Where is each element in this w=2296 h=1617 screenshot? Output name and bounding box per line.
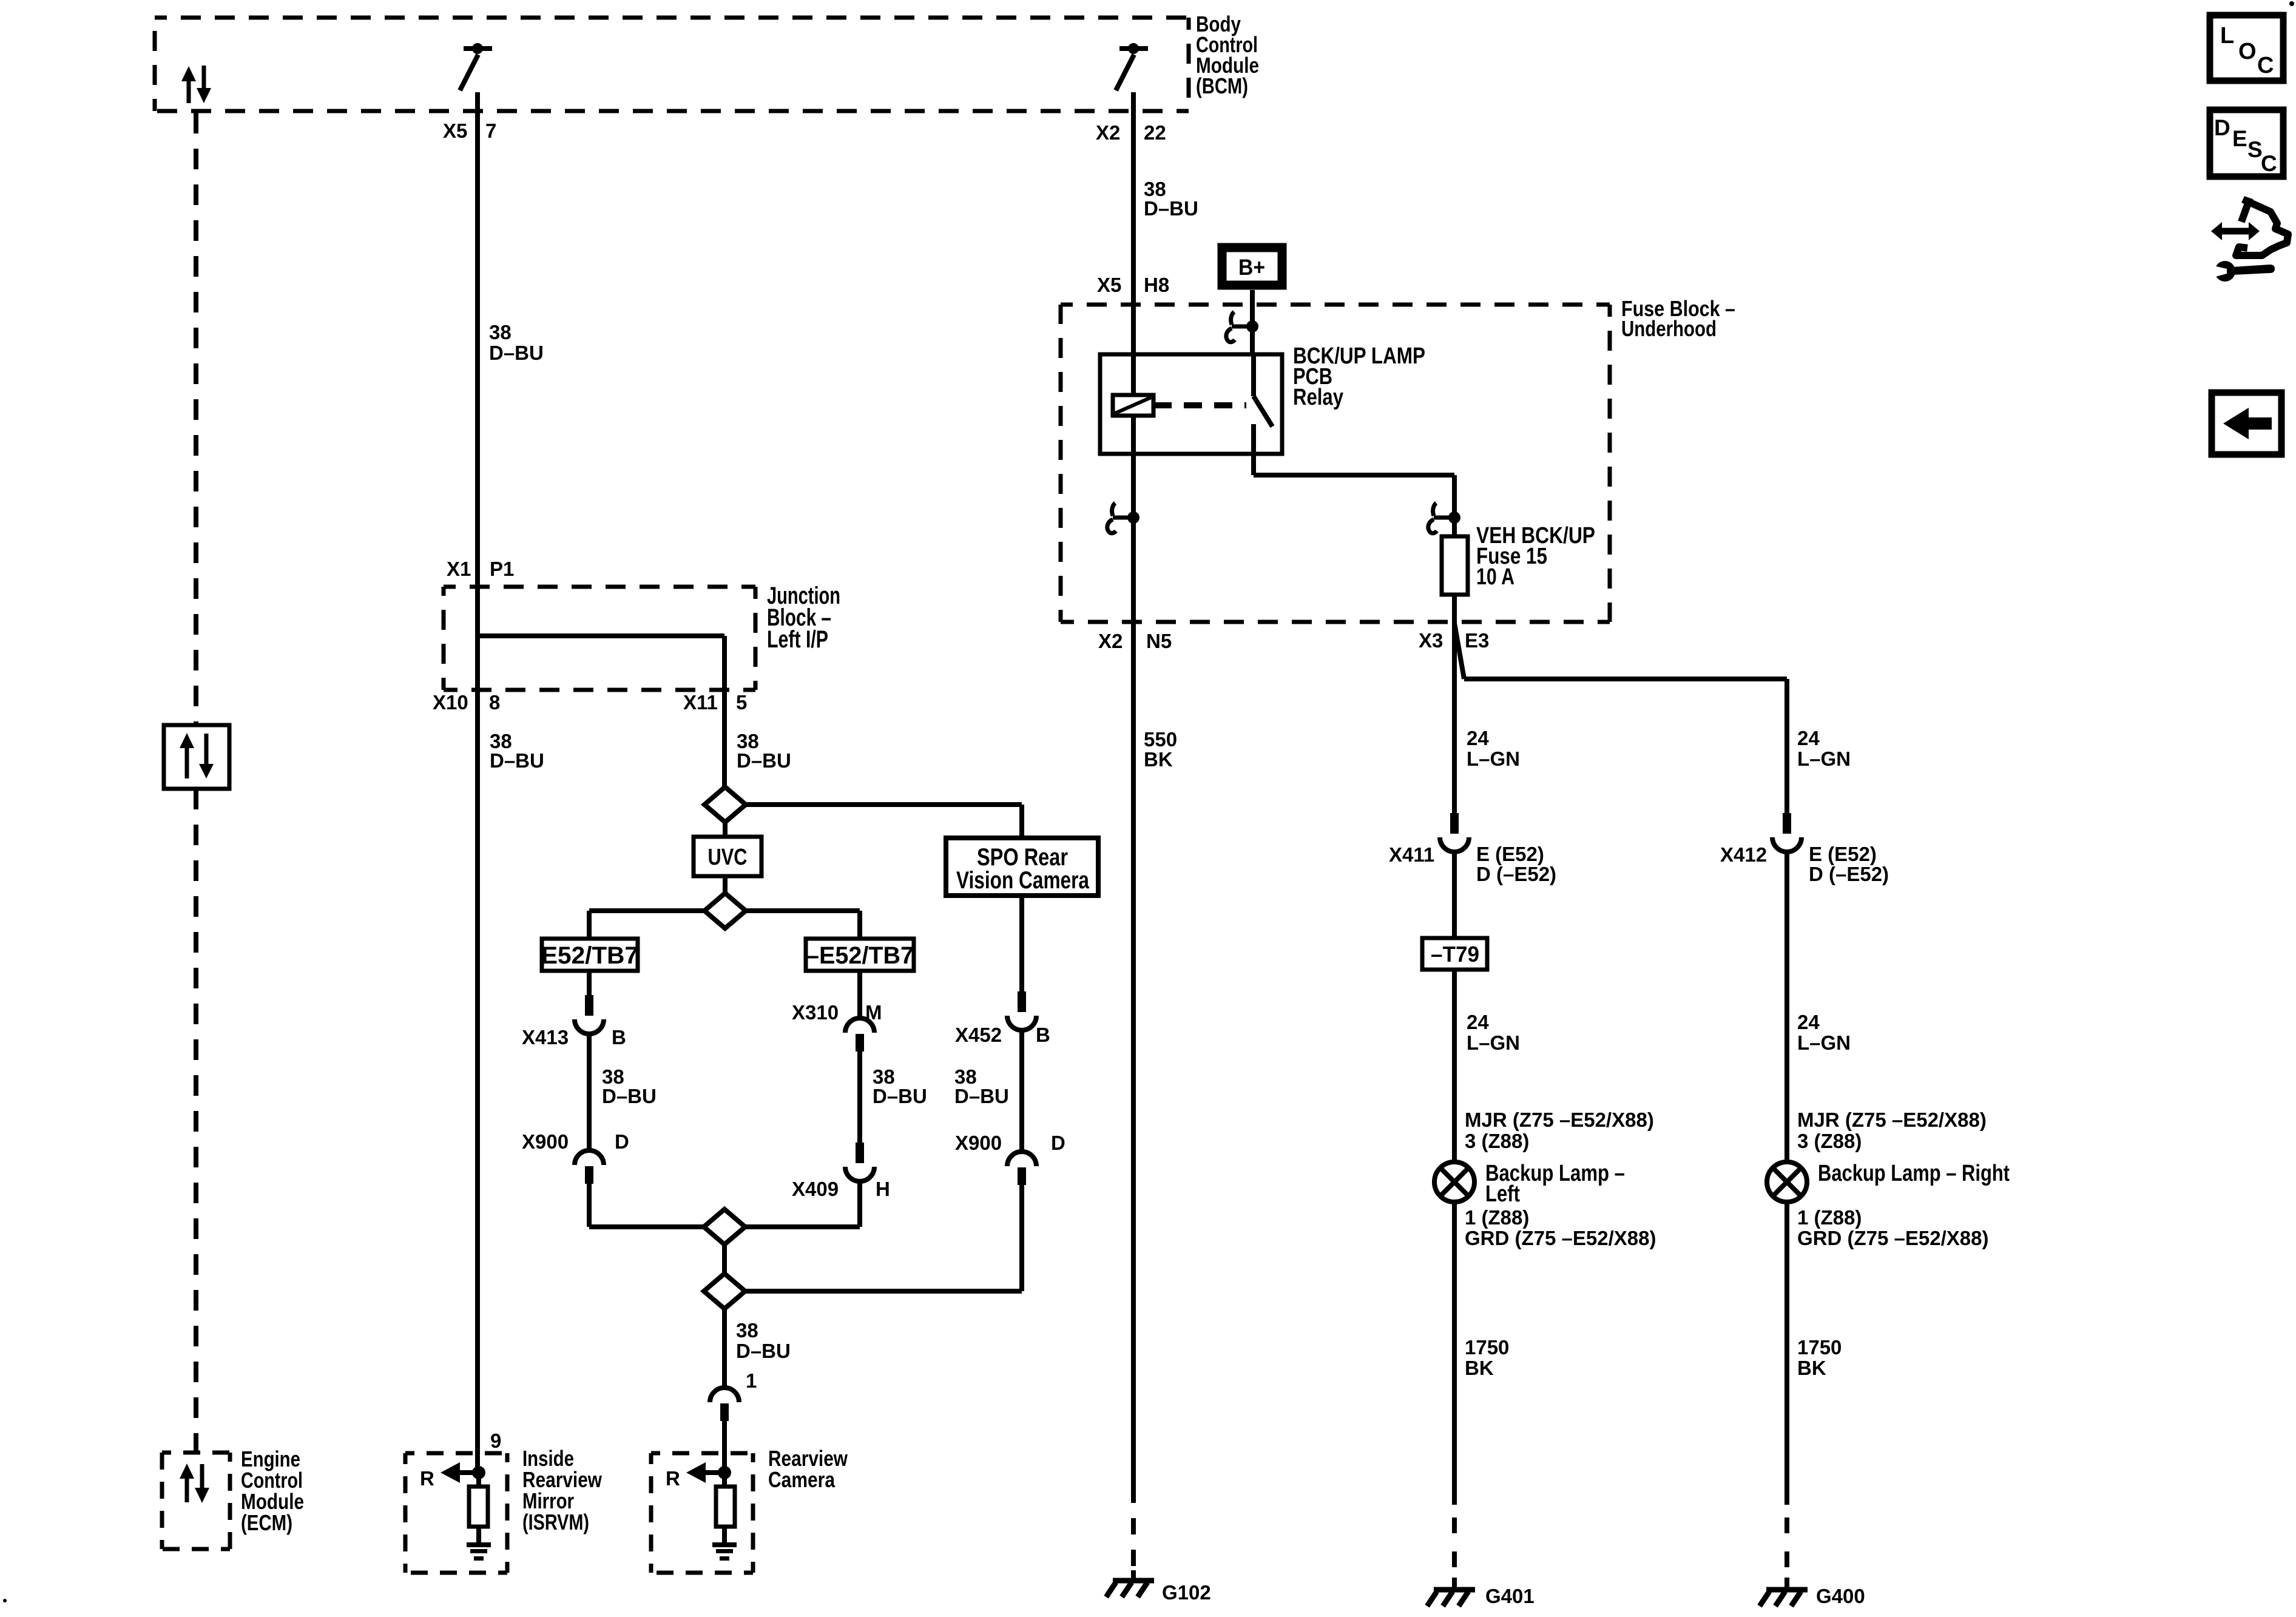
svg-text:–E52/TB7: –E52/TB7 xyxy=(806,942,914,969)
svg-text:3 (Z88): 3 (Z88) xyxy=(1465,1130,1529,1152)
svg-text:7: 7 xyxy=(485,120,496,142)
svg-text:G401: G401 xyxy=(1485,1585,1535,1607)
svg-text:24: 24 xyxy=(1467,727,1489,749)
svg-text:O: O xyxy=(2238,39,2257,64)
svg-text:L: L xyxy=(2220,23,2234,49)
svg-text:24: 24 xyxy=(1467,1011,1489,1033)
svg-text:P1: P1 xyxy=(490,558,514,580)
svg-text:22: 22 xyxy=(1144,121,1166,144)
svg-text:G102: G102 xyxy=(1162,1581,1211,1604)
svg-text:X1: X1 xyxy=(447,558,471,580)
svg-text:M: M xyxy=(865,1001,882,1024)
svg-text:D–BU: D–BU xyxy=(489,342,544,364)
svg-text:3 (Z88): 3 (Z88) xyxy=(1797,1130,1862,1152)
svg-text:X900: X900 xyxy=(522,1130,569,1153)
svg-text:X5: X5 xyxy=(1097,274,1121,296)
svg-text:MJR (Z75 –E52/X88): MJR (Z75 –E52/X88) xyxy=(1797,1109,1987,1131)
svg-text:R: R xyxy=(666,1467,680,1490)
svg-text:X10: X10 xyxy=(433,691,468,714)
svg-text:MJR (Z75 –E52/X88): MJR (Z75 –E52/X88) xyxy=(1465,1109,1654,1131)
svg-text:C: C xyxy=(2257,53,2274,78)
svg-text:L–GN: L–GN xyxy=(1467,1031,1520,1054)
svg-text:B+: B+ xyxy=(1238,255,1265,280)
svg-text:H8: H8 xyxy=(1144,274,1169,296)
svg-text:G400: G400 xyxy=(1816,1585,1865,1607)
svg-text:X2: X2 xyxy=(1098,630,1123,652)
svg-text:X413: X413 xyxy=(522,1026,569,1048)
svg-text:X900: X900 xyxy=(955,1132,1002,1154)
svg-text:E52/TB7: E52/TB7 xyxy=(541,942,638,969)
svg-text:(ECM): (ECM) xyxy=(241,1510,292,1535)
svg-text:38: 38 xyxy=(489,321,512,343)
svg-text:R: R xyxy=(420,1467,434,1490)
svg-text:X11: X11 xyxy=(683,691,718,714)
svg-text:1750: 1750 xyxy=(1465,1336,1509,1359)
svg-text:D–BU: D–BU xyxy=(737,749,791,772)
svg-text:X2: X2 xyxy=(1096,121,1120,144)
svg-text:24: 24 xyxy=(1797,1011,1820,1033)
svg-text:Relay: Relay xyxy=(1293,385,1343,410)
svg-text:D (–E52): D (–E52) xyxy=(1476,863,1556,885)
svg-text:X310: X310 xyxy=(792,1001,839,1024)
svg-text:GRD (Z75 –E52/X88): GRD (Z75 –E52/X88) xyxy=(1465,1227,1656,1249)
svg-text:24: 24 xyxy=(1797,727,1820,749)
svg-text:Backup Lamp – Right: Backup Lamp – Right xyxy=(1818,1161,2010,1186)
svg-text:9: 9 xyxy=(490,1430,501,1452)
svg-text:1: 1 xyxy=(746,1369,757,1392)
svg-text:D: D xyxy=(615,1130,629,1153)
svg-text:–T79: –T79 xyxy=(1431,942,1479,967)
svg-text:N5: N5 xyxy=(1146,630,1172,652)
svg-text:GRD (Z75 –E52/X88): GRD (Z75 –E52/X88) xyxy=(1797,1227,1988,1249)
svg-text:1 (Z88): 1 (Z88) xyxy=(1465,1206,1529,1229)
svg-text:1 (Z88): 1 (Z88) xyxy=(1797,1206,1862,1229)
svg-text:E (E52): E (E52) xyxy=(1476,843,1544,865)
svg-text:X3: X3 xyxy=(1419,629,1443,652)
svg-text:8: 8 xyxy=(489,691,500,714)
svg-text:E (E52): E (E52) xyxy=(1809,843,1877,865)
svg-text:(ISRVM): (ISRVM) xyxy=(522,1510,589,1534)
svg-text:D–BU: D–BU xyxy=(1144,197,1198,220)
svg-text:Vision Camera: Vision Camera xyxy=(956,867,1090,894)
svg-text:D–BU: D–BU xyxy=(736,1340,791,1362)
svg-text:X5: X5 xyxy=(443,120,467,142)
svg-text:Left: Left xyxy=(1485,1181,1520,1207)
svg-text:1750: 1750 xyxy=(1797,1336,1842,1359)
svg-text:B: B xyxy=(1036,1024,1050,1046)
svg-text:S: S xyxy=(2247,137,2263,162)
svg-text:D–BU: D–BU xyxy=(490,749,544,772)
svg-text:L–GN: L–GN xyxy=(1797,748,1851,770)
svg-text:L–GN: L–GN xyxy=(1797,1031,1851,1054)
svg-text:D–BU: D–BU xyxy=(873,1085,927,1107)
svg-text:D–BU: D–BU xyxy=(602,1085,657,1107)
svg-text:X452: X452 xyxy=(955,1024,1002,1046)
svg-text:BK: BK xyxy=(1144,748,1173,771)
svg-text:Camera: Camera xyxy=(768,1467,836,1492)
svg-text:E3: E3 xyxy=(1465,629,1489,652)
svg-text:L–GN: L–GN xyxy=(1467,748,1520,770)
svg-text:D: D xyxy=(2214,115,2230,140)
svg-text:X412: X412 xyxy=(1720,843,1767,866)
svg-text:(BCM): (BCM) xyxy=(1196,73,1248,98)
svg-text:E: E xyxy=(2232,126,2247,151)
svg-text:BK: BK xyxy=(1797,1357,1826,1379)
svg-text:H: H xyxy=(876,1178,890,1200)
svg-text:C: C xyxy=(2261,151,2277,176)
svg-text:D (–E52): D (–E52) xyxy=(1809,863,1889,885)
svg-text:38: 38 xyxy=(736,1319,758,1342)
svg-text:10 A: 10 A xyxy=(1476,564,1514,590)
svg-text:Underhood: Underhood xyxy=(1621,316,1717,341)
svg-text:B: B xyxy=(612,1026,626,1048)
svg-text:X409: X409 xyxy=(792,1178,839,1200)
svg-text:UVC: UVC xyxy=(708,845,748,870)
svg-text:X411: X411 xyxy=(1389,843,1434,866)
svg-text:D: D xyxy=(1051,1132,1065,1154)
svg-text:D–BU: D–BU xyxy=(954,1085,1009,1107)
svg-text:5: 5 xyxy=(736,691,747,714)
svg-text:550: 550 xyxy=(1144,728,1177,751)
svg-text:Left I/P: Left I/P xyxy=(767,626,828,653)
svg-text:BK: BK xyxy=(1465,1357,1494,1379)
